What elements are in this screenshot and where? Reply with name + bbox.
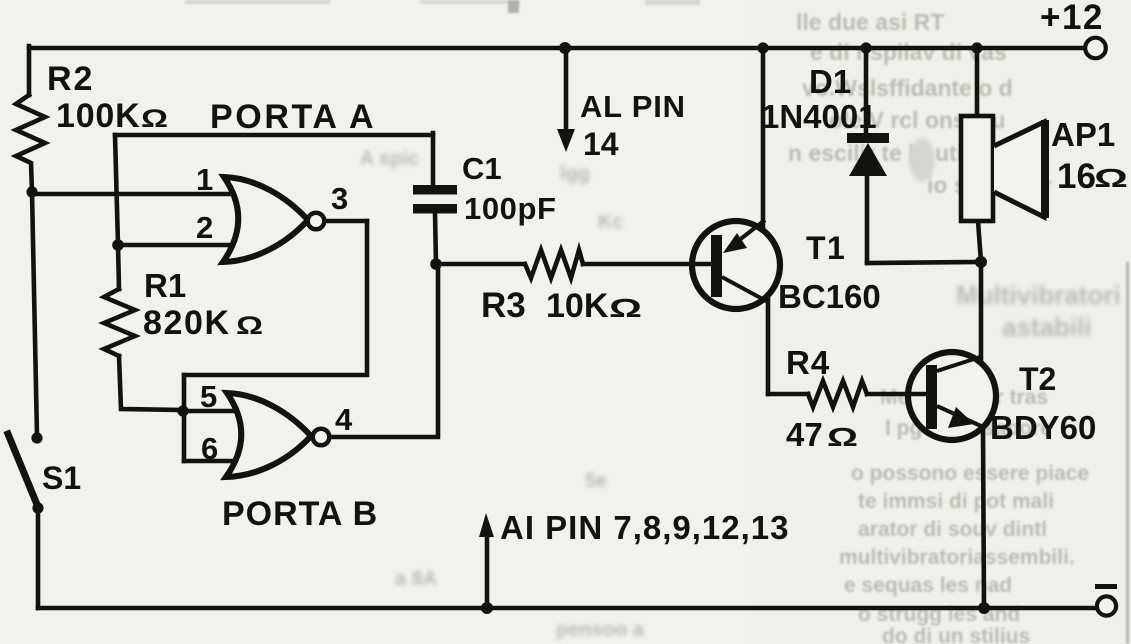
minus sign [1095,584,1117,589]
svg-text:C1: C1 [462,151,502,186]
svg-text:te immsi di pot mali: te immsi di pot mali [858,490,1054,513]
wire pin 6 [184,459,234,464]
resistor R2 [16,95,45,192]
wire gate B output to C1 node [327,266,438,437]
wire T1 to R4 [768,392,808,397]
speaker AP1 horn [994,122,1044,217]
terminal minus [1097,596,1116,615]
svg-text:astabili: astabili [1002,312,1092,342]
wire D1 top lead [864,48,869,135]
faint middle bleed marks [360,148,645,641]
wire AP1 bottom lead [978,221,981,262]
wire R3 to T1 base [583,262,714,267]
transistor T1 body [692,221,780,309]
wire AI PIN arrow shaft [485,536,490,608]
T2 base bar [926,365,937,429]
AI PIN arrowhead [479,513,494,537]
bleed-through heading Multivibratori astabili [956,280,1121,342]
wire C1 node to R3 [436,262,524,267]
T2 base wire into circle [906,392,928,397]
junction dot gate B input node [177,405,188,416]
NOR gate PORTA B [226,393,311,477]
svg-text:a 8A: a 8A [395,568,437,590]
svg-text:R1: R1 [144,267,186,304]
svg-text:100K: 100K [56,97,140,135]
svg-text:6: 6 [201,431,218,466]
svg-text:+12: +12 [1040,0,1104,37]
wire R1 top lead [118,245,119,289]
junction dot D1 tap [860,42,871,53]
stain near diode [909,138,935,182]
junction dot D1/AP1/T2 collector node [975,256,987,268]
svg-text:pensoo a: pensoo a [556,619,645,641]
bleed-through text top right [788,9,1052,198]
T2 emitter line with NPN arrow [937,406,981,426]
junction dot C1/R3 node [430,258,442,270]
svg-text:2: 2 [196,210,213,245]
svg-text:4: 4 [335,402,353,437]
T2 collector line [937,357,980,371]
transistor T2 body [908,352,996,440]
wire AP1 top lead [975,48,980,116]
wire R1 bottom to gate B inputs [119,356,182,410]
svg-text:PORTA B: PORTA B [222,495,378,533]
page-edge gray line right [1126,262,1129,644]
top edge smudges [185,0,700,13]
svg-text:820K: 820K [143,304,231,342]
svg-text:Ω: Ω [609,293,642,323]
svg-text:D1: D1 [809,63,851,100]
wire feedback top horizontal to C1 [115,133,433,138]
svg-text:R4: R4 [786,344,830,381]
wire T2 emitter to bottom rail [983,430,984,608]
svg-text:Ω: Ω [827,422,858,452]
wire C1 bottom lead [435,213,436,264]
svg-text:5: 5 [200,379,217,414]
resistor R4 [808,381,867,407]
svg-text:do di un stilius: do di un stilius [882,625,1030,644]
T1 emitter line with PNP arrow [729,220,765,248]
wire top rail +12 [29,46,1083,51]
svg-text:T2: T2 [1019,361,1056,397]
wire R4 to T2 base [867,392,928,397]
resistor R3 [525,250,583,278]
AL PIN 14 arrowhead [557,129,575,152]
wire pin 2 [118,243,230,248]
T1 collector line [722,277,768,302]
diode D1 triangle [849,143,887,176]
junction dot T2 emitter tap [978,602,990,614]
svg-text:1N4001: 1N4001 [761,98,877,135]
junction dot R2 node [26,186,37,197]
junction dot pin2 node [112,239,124,251]
wire feedback from gate A output [184,221,367,375]
svg-text:PORTA A: PORTA A [210,98,376,136]
gate B output bubble [313,429,330,446]
svg-text:o possono essere piace: o possono essere piace [851,462,1089,485]
wire C1 top lead [431,133,436,186]
wire T1 collector down [766,299,771,394]
wire pin 5 [182,409,232,414]
wire left top corner down to R2 [27,46,32,95]
wire bottom rail minus [38,606,1095,611]
wire collector node to T2 [979,262,984,360]
svg-text:e sequas les nad: e sequas les nad [844,574,1012,597]
svg-text:AP1: AP1 [1051,116,1115,153]
junction dot AI PIN tap [481,602,493,614]
svg-text:Ω: Ω [1094,163,1128,193]
svg-text:arator di souv dintl: arator di souv dintl [858,518,1047,541]
svg-text:lle due asi RT: lle due asi RT [796,9,944,35]
svg-text:Ω: Ω [236,312,263,340]
svg-text:R2: R2 [47,60,94,98]
wire D1 bottom lead [865,175,870,263]
svg-text:10K: 10K [546,287,609,325]
svg-text:BDY60: BDY60 [990,409,1096,446]
bleed-through text bottom right [839,386,1089,644]
svg-text:R3: R3 [481,286,526,325]
svg-text:A spic: A spic [360,148,419,170]
wire vertical pin2/R1 branch [115,135,118,245]
svg-text:AI PIN 7,8,9,12,13: AI PIN 7,8,9,12,13 [500,509,790,546]
switch S1 blade [8,434,38,507]
svg-text:100pF: 100pF [464,191,557,226]
wire left drop to switch [32,192,37,436]
svg-text:47: 47 [786,416,823,453]
svg-text:5e: 5e [585,470,607,492]
svg-text:1: 1 [196,162,213,197]
NOR gate PORTA A [223,177,308,262]
wire T1 emitter to top rail [761,48,766,231]
junction dot AL PIN tap [559,42,571,54]
gate A output bubble [308,213,325,230]
switch S1 contact dots [31,432,42,443]
svg-text:3: 3 [331,181,348,216]
T1 base wire into circle [690,262,713,267]
wire R2 node to pin 1 [32,192,230,197]
svg-text:AL PIN: AL PIN [580,89,686,124]
wire pin 6 drop [182,411,187,461]
junction dot AP1 tap [971,42,982,53]
svg-text:Kc: Kc [598,211,624,233]
terminal +12 [1085,38,1106,59]
speaker AP1 frame [961,116,993,221]
svg-text:14: 14 [583,126,619,162]
svg-text:Ω: Ω [141,105,168,133]
wire gate A output [322,219,367,224]
wire switch to bottom rail [36,509,41,608]
svg-text:T1: T1 [806,230,846,266]
capacitor C1 plates [413,185,457,195]
T1 base bar [711,235,722,297]
svg-text:S1: S1 [42,460,81,496]
wire D1 to collector node [867,262,981,263]
wire AL PIN 14 arrow shaft [564,50,569,132]
diode D1 cathode bar [847,133,889,143]
svg-text:16: 16 [1057,157,1096,196]
resistor R1 [104,289,135,356]
svg-text:BC160: BC160 [778,278,881,315]
svg-text:multivibratoriassembili.: multivibratoriassembili. [839,546,1075,569]
svg-text:lgg: lgg [560,163,590,185]
wire pin5/6 node up [182,375,187,410]
junction dot T1 emitter tap [757,42,768,53]
